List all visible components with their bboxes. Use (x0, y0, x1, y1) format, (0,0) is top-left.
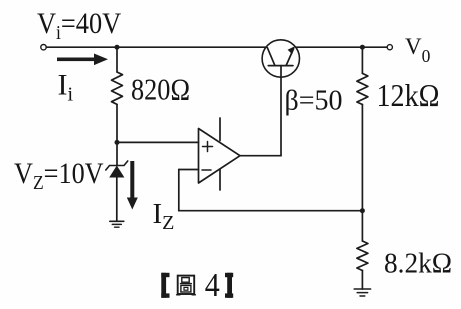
wire: node down to resistor R1 (116, 47, 118, 72)
wire: op-amp inverting input stub (179, 169, 199, 171)
wire: feedback vertical segment (178, 170, 180, 211)
transistor Q1 collector slant (267, 48, 275, 66)
current arrow IZ (127, 161, 138, 210)
wire: input terminal to transistor collector (46, 46, 266, 48)
wire: transistor emitter to output node (296, 46, 388, 48)
wire: op-amp output to transistor base (vertical) (280, 66, 282, 156)
transistor Q1 circle (262, 40, 299, 77)
svg-text:VZ=10V: VZ=10V (14, 157, 104, 194)
resistor R2 12kohm (357, 73, 368, 104)
node: top of 820 ohm resistor (115, 45, 120, 50)
svg-text:Vi=40V: Vi=40V (37, 8, 122, 45)
resistor R3 8.2kohm (357, 241, 368, 271)
wire: feedback horizontal to divider node (179, 210, 363, 212)
ground (left) (110, 220, 124, 222)
node B: junction 820/zener/op-amp (115, 140, 120, 145)
ground (right) (354, 288, 370, 290)
svg-text:4: 4 (205, 267, 220, 304)
svg-text:V0: V0 (405, 34, 431, 66)
zener diode VZ triangle (anode) (109, 166, 124, 178)
transistor Q1 emitter slant (286, 49, 294, 66)
svg-text:IZ: IZ (153, 198, 175, 234)
svg-text:820Ω: 820Ω (131, 72, 190, 107)
wire: node B to op-amp non-inverting input (117, 141, 199, 143)
wire: 12k resistor down to divider node (361, 105, 363, 211)
wire: op-amp output to transistor base (horizontal) (240, 155, 281, 157)
wire: resistor R1 to node B (116, 104, 118, 142)
wire: 8.2k resistor to ground (361, 271, 363, 290)
op-amp minus input marking (202, 169, 211, 171)
current arrow Ii (57, 54, 108, 66)
svg-text:8.2kΩ: 8.2kΩ (384, 248, 452, 280)
svg-text:β=50: β=50 (285, 86, 343, 117)
zener diode VZ cathode bar with bent ends (106, 161, 128, 170)
output terminal V0 (387, 45, 392, 50)
svg-text:Ii: Ii (58, 69, 74, 106)
node: divider junction 12k/8.2k/feedback (360, 208, 365, 213)
op-amp negative supply pin (219, 170, 221, 191)
op-amp U1 triangle (199, 129, 241, 184)
svg-text:12kΩ: 12kΩ (377, 77, 440, 113)
op-amp positive supply pin (219, 118, 221, 141)
wire: node B down to zener cathode (116, 142, 118, 165)
node: output / top of 12k (360, 45, 365, 50)
wire: zener anode to ground (116, 178, 118, 222)
input terminal Vi (41, 45, 46, 50)
wire: divider node to 8.2k resistor (361, 211, 363, 241)
resistor R1 820ohm (112, 72, 123, 104)
caption character tu (figure) (177, 276, 196, 295)
wire: output node down to 12k resistor (361, 47, 363, 73)
caption bracket right (225, 273, 233, 298)
op-amp plus input marking (203, 146, 213, 148)
transistor Q1 base bar (268, 65, 293, 67)
caption bracket left (161, 273, 169, 298)
transistor Q1 emitter arrowhead (288, 46, 295, 54)
